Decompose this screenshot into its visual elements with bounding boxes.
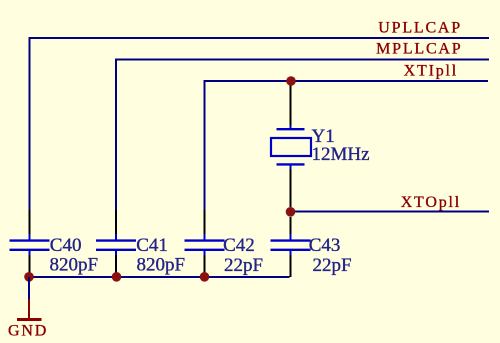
- capacitor C40: [10, 210, 50, 276]
- svg-text:MPLLCAP: MPLLCAP: [376, 41, 462, 58]
- wire to ground: [28, 277, 30, 299]
- capacitor C41: [96, 210, 136, 276]
- ground symbol stem: [28, 299, 30, 320]
- svg-text:UPLLCAP: UPLLCAP: [378, 20, 462, 37]
- crystal Y1: [271, 82, 311, 207]
- junction on XTIpll at crystal: [286, 76, 296, 86]
- svg-text:C41: C41: [136, 235, 168, 256]
- svg-text:820pF: 820pF: [50, 255, 99, 276]
- capacitor C42: [185, 210, 225, 276]
- svg-text:C42: C42: [223, 235, 255, 256]
- wire UPLLCAP rail: [30, 38, 490, 210]
- wire MPLLCAP rail: [116, 60, 489, 211]
- wire XTIpll rail: [205, 81, 489, 210]
- svg-text:XTIpll: XTIpll: [404, 63, 458, 80]
- svg-text:22pF: 22pF: [313, 255, 352, 276]
- svg-text:22pF: 22pF: [224, 255, 263, 276]
- wire XTOpll rail: [291, 211, 490, 213]
- junction C41 on bus: [112, 272, 122, 282]
- svg-text:C43: C43: [309, 235, 341, 256]
- svg-text:12MHz: 12MHz: [312, 144, 370, 165]
- ground symbol bar: [17, 318, 42, 321]
- svg-text:XTOpll: XTOpll: [401, 194, 461, 211]
- junction C42 on bus: [200, 272, 210, 282]
- svg-text:C40: C40: [50, 235, 82, 256]
- crystal body rectangle: [271, 138, 311, 156]
- pin 2 (bottom) of Y1: [277, 163, 305, 165]
- svg-text:820pF: 820pF: [137, 255, 186, 276]
- svg-text:GND: GND: [8, 323, 48, 340]
- pin 1 (top) of Y1: [290, 82, 292, 125]
- capacitor C43: [271, 217, 311, 277]
- junction on XTOpll at crystal: [286, 207, 296, 217]
- junction C40/GND on bus: [24, 272, 34, 282]
- wire ground bus: [29, 276, 290, 278]
